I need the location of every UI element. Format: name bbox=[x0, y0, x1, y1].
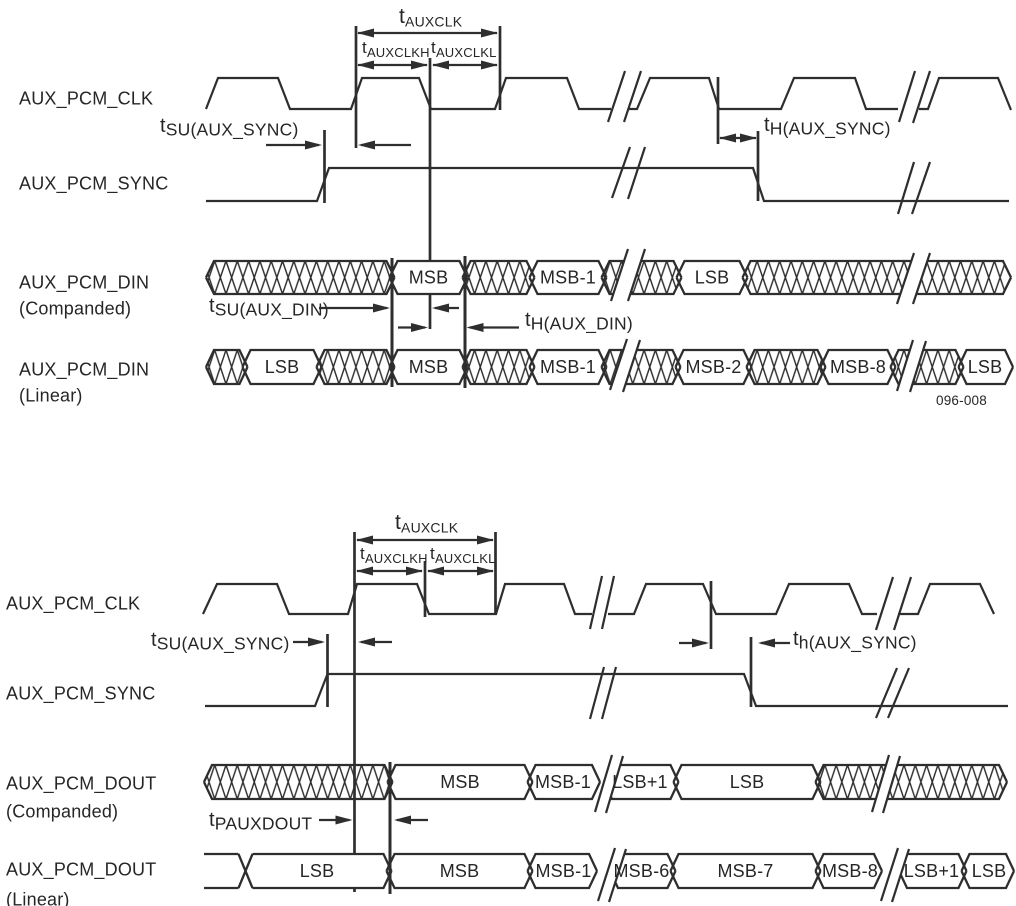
dimension line left boundary x356 (top) bbox=[355, 26, 358, 148]
tick clock fall reference x711 (bottom) bbox=[710, 581, 713, 649]
svg-text:tSU(AUX_DIN): tSU(AUX_DIN) bbox=[209, 295, 329, 321]
svg-text:tAUXCLK: tAUXCLK bbox=[395, 511, 459, 536]
first transition X cross (bottom linear DOUT) bbox=[239, 854, 253, 888]
svg-text:(Companded): (Companded) bbox=[6, 802, 118, 822]
svg-text:MSB: MSB bbox=[409, 357, 449, 377]
svg-text:LSB: LSB bbox=[695, 268, 730, 288]
svg-text:LSB+1: LSB+1 bbox=[612, 772, 668, 792]
clock waveform AUX_PCM_CLK (bottom) segment 3 bbox=[898, 584, 994, 614]
arrow to clock edge left (top) bbox=[361, 144, 411, 146]
bus AUX_PCM_DOUT (Linear) bbox=[204, 848, 1014, 902]
svg-text:AUX_PCM_SYNC: AUX_PCM_SYNC bbox=[6, 684, 155, 705]
arrow tPAUXDOUT left bbox=[397, 819, 428, 821]
svg-text:AUX_PCM_DOUT: AUX_PCM_DOUT bbox=[6, 774, 156, 795]
svg-text:MSB-1: MSB-1 bbox=[535, 861, 591, 881]
svg-text:(Linear): (Linear) bbox=[6, 890, 70, 906]
sync waveform AUX_PCM_SYNC (top) bbox=[206, 168, 1009, 201]
clock waveform AUX_PCM_CLK (top) segment 2 bbox=[629, 78, 898, 109]
dimension line right boundary x495.5 (bottom) bbox=[494, 532, 497, 614]
arrow to clock edge left (bottom) bbox=[361, 641, 392, 643]
svg-text:MSB-8: MSB-8 bbox=[830, 357, 886, 377]
svg-text:MSB-1: MSB-1 bbox=[540, 357, 596, 377]
svg-text:MSB: MSB bbox=[440, 772, 480, 792]
svg-text:(Companded): (Companded) bbox=[19, 299, 131, 319]
arrow tPAUXDOUT right bbox=[319, 819, 350, 821]
clock break slashes (top, first) bbox=[608, 71, 625, 122]
svg-text:MSB-1: MSB-1 bbox=[535, 772, 591, 792]
reference line DIN valid x392 bbox=[391, 258, 394, 387]
bus AUX_PCM_DIN (Companded) bbox=[206, 249, 1011, 304]
svg-text:AUX_PCM_DIN: AUX_PCM_DIN bbox=[19, 360, 149, 381]
clock waveform AUX_PCM_CLK (bottom) segment 2 bbox=[608, 584, 877, 614]
svg-text:tH(AUX_DIN): tH(AUX_DIN) bbox=[525, 309, 633, 335]
dimension arrow tAUXCLK (bottom) bbox=[357, 539, 493, 541]
bus AUX_PCM_DIN (Linear) bbox=[206, 339, 1013, 392]
tick sync rise reference x324 (top) bbox=[323, 130, 326, 203]
svg-text:LSB: LSB bbox=[968, 357, 1003, 377]
svg-text:tH(AUX_SYNC): tH(AUX_SYNC) bbox=[764, 114, 891, 140]
svg-text:MSB-2: MSB-2 bbox=[685, 357, 741, 377]
svg-text:LSB: LSB bbox=[300, 861, 335, 881]
svg-text:tAUXCLKH: tAUXCLKH bbox=[360, 544, 428, 566]
svg-text:LSB: LSB bbox=[730, 772, 765, 792]
svg-text:LSB+1: LSB+1 bbox=[904, 861, 960, 881]
svg-text:AUX_PCM_CLK: AUX_PCM_CLK bbox=[19, 89, 153, 110]
arrow tH(AUX_DIN) left bbox=[470, 326, 520, 328]
svg-text:096-008: 096-008 bbox=[936, 393, 987, 408]
arrow tSU(AUX_DIN) right bbox=[319, 307, 387, 309]
dimension arrow tH(AUX_SYNC) (top) bbox=[720, 137, 756, 139]
clock waveform AUX_PCM_CLK (bottom) segment 1 bbox=[203, 584, 592, 614]
svg-text:tAUXCLKL: tAUXCLKL bbox=[431, 38, 497, 60]
arrow tH(AUX_DIN) right bbox=[398, 326, 425, 328]
arrow th(AUX_SYNC) left (bottom) bbox=[761, 642, 790, 644]
svg-text:MSB: MSB bbox=[409, 268, 449, 288]
clock break slashes (top, second) bbox=[899, 71, 915, 122]
svg-text:AUX_PCM_DOUT: AUX_PCM_DOUT bbox=[6, 860, 156, 881]
dimension arrow tAUXCLKH (top) bbox=[358, 64, 427, 66]
svg-text:AUX_PCM_CLK: AUX_PCM_CLK bbox=[6, 594, 140, 615]
tick sync fall reference x758 (top) bbox=[757, 131, 760, 201]
sync break slashes (top, high) bbox=[612, 147, 630, 198]
svg-text:tAUXCLK: tAUXCLK bbox=[399, 5, 463, 30]
svg-text:AUX_PCM_SYNC: AUX_PCM_SYNC bbox=[19, 174, 168, 195]
svg-text:MSB-6: MSB-6 bbox=[613, 861, 669, 881]
tick sync fall reference x751 (bottom) bbox=[750, 637, 753, 707]
arrow tSU(AUX_SYNC) right (bottom) bbox=[293, 641, 322, 643]
svg-text:MSB-8: MSB-8 bbox=[822, 861, 878, 881]
reference line DIN hold x465 bbox=[464, 256, 467, 388]
svg-text:th(AUX_SYNC): th(AUX_SYNC) bbox=[793, 628, 917, 654]
dimension line left boundary x354.5 (bottom, long) bbox=[353, 532, 356, 892]
sync break slashes (top, low) bbox=[898, 162, 914, 214]
svg-text:LSB: LSB bbox=[265, 357, 300, 377]
svg-text:AUX_PCM_DIN: AUX_PCM_DIN bbox=[19, 273, 149, 294]
arrow tSU(AUX_SYNC) right (top) bbox=[266, 144, 319, 146]
svg-text:MSB-7: MSB-7 bbox=[717, 861, 773, 881]
tick clock fall reference x718 (top) bbox=[717, 77, 720, 144]
reference line DOUT valid x390 (bottom) bbox=[389, 762, 392, 894]
divider tick x425 (bottom) bbox=[424, 561, 427, 617]
dimension arrow tAUXCLKH (bottom) bbox=[357, 570, 422, 572]
bus AUX_PCM_DOUT (Companded) bbox=[204, 755, 1007, 813]
svg-text:tAUXCLKL: tAUXCLKL bbox=[430, 544, 496, 566]
sync waveform AUX_PCM_SYNC (bottom) bbox=[205, 674, 1008, 706]
clock break slashes (bottom, second) bbox=[876, 577, 893, 630]
svg-text:LSB: LSB bbox=[972, 861, 1007, 881]
svg-text:MSB-1: MSB-1 bbox=[540, 268, 596, 288]
sync break slashes (bottom, high) bbox=[590, 667, 604, 719]
tick sync rise reference x327.5 (bottom) bbox=[326, 634, 329, 707]
arrow to clock fall right (bottom) bbox=[679, 642, 706, 644]
clock waveform AUX_PCM_CLK (top) segment 1 bbox=[206, 78, 611, 109]
sync break slashes (bottom, low) bbox=[876, 668, 897, 718]
clock waveform AUX_PCM_CLK (top) segment 3 bbox=[919, 78, 1011, 110]
dimension arrow tAUXCLKL (bottom) bbox=[428, 570, 493, 572]
dimension arrow tAUXCLK (top) bbox=[358, 32, 497, 34]
svg-text:tAUXCLKH: tAUXCLKH bbox=[362, 38, 430, 60]
dimension arrow tAUXCLKL (top) bbox=[433, 64, 497, 66]
long reference line x430 (clock fall to DIN) bbox=[429, 58, 432, 329]
dimension line right boundary x500 (top) bbox=[499, 26, 502, 110]
svg-text:tSU(AUX_SYNC): tSU(AUX_SYNC) bbox=[160, 115, 298, 141]
svg-text:tPAUXDOUT: tPAUXDOUT bbox=[209, 809, 312, 834]
clock break slashes (bottom, first) bbox=[590, 576, 602, 629]
svg-text:(Linear): (Linear) bbox=[19, 386, 83, 406]
svg-text:tSU(AUX_SYNC): tSU(AUX_SYNC) bbox=[151, 629, 289, 655]
arrow tSU(AUX_DIN) left bbox=[435, 307, 459, 309]
svg-text:MSB: MSB bbox=[440, 861, 480, 881]
